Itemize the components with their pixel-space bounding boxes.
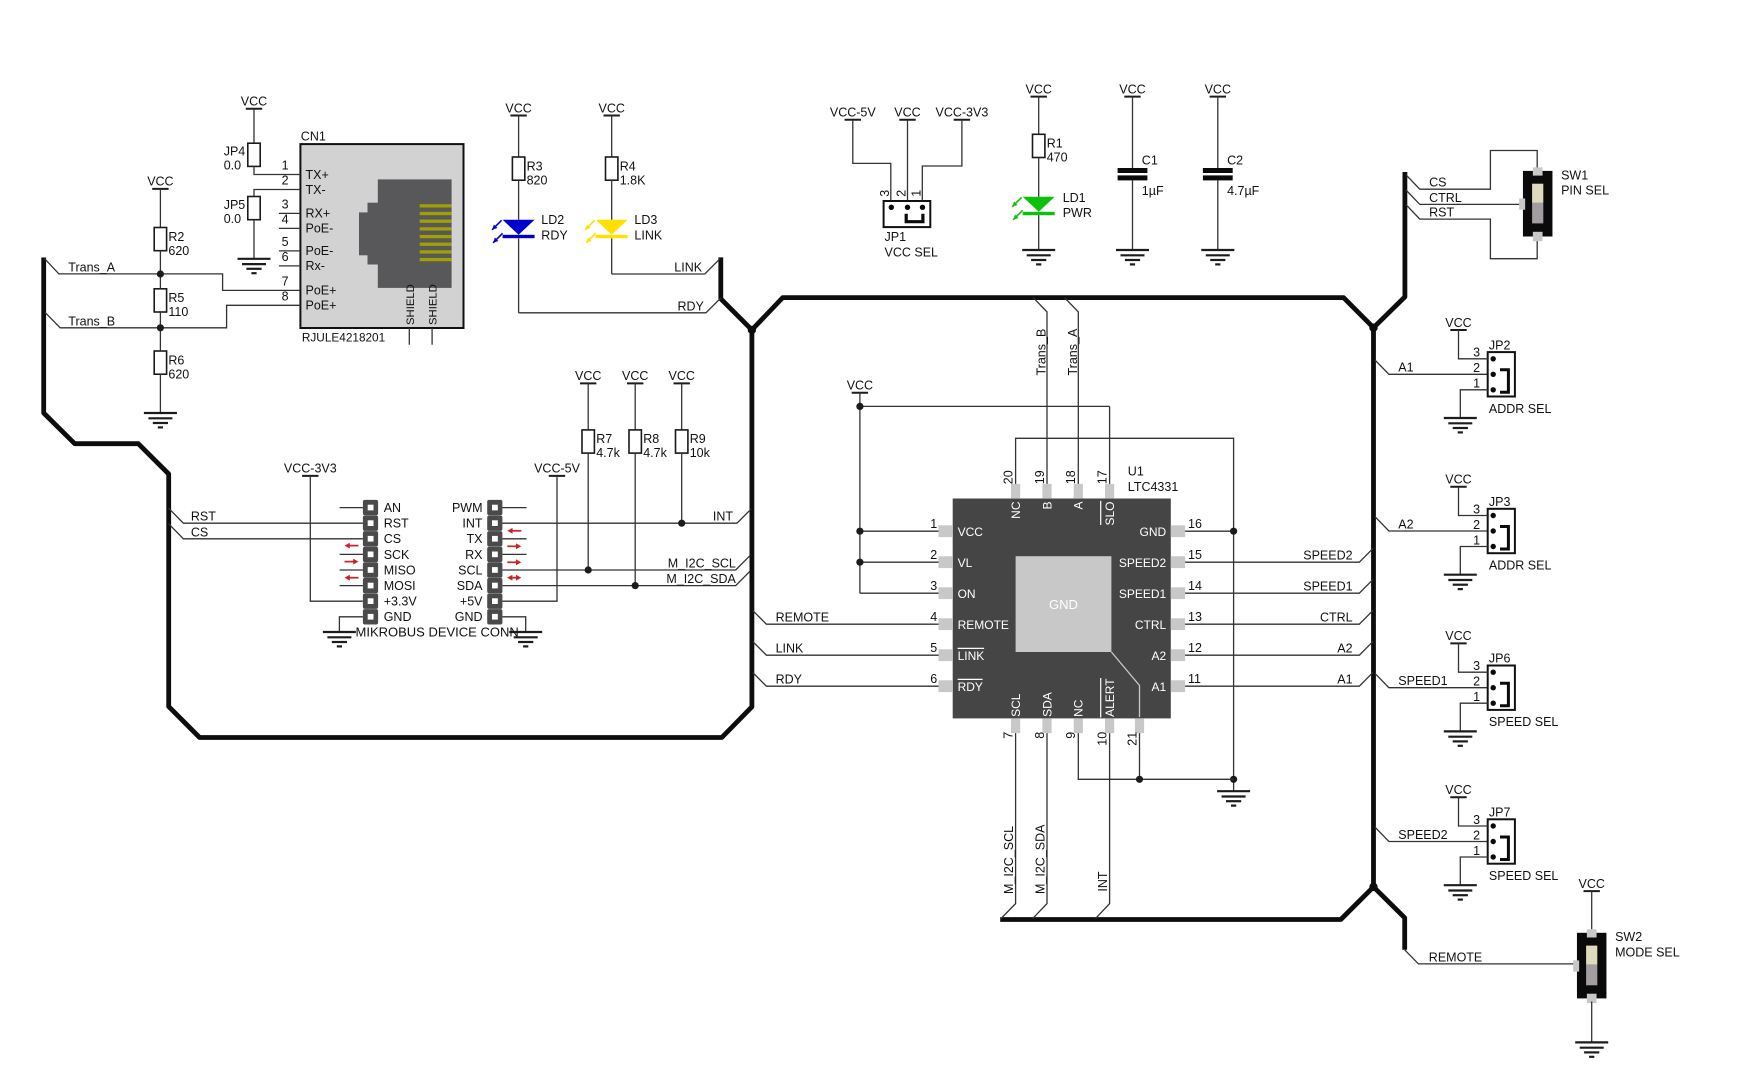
svg-text:Trans_B: Trans_B: [68, 314, 115, 328]
svg-text:GND: GND: [1049, 597, 1078, 612]
svg-text:SCL: SCL: [458, 563, 482, 577]
svg-text:LINK: LINK: [776, 642, 804, 656]
svg-text:LINK: LINK: [674, 261, 702, 275]
svg-text:GND: GND: [384, 610, 412, 624]
svg-text:1: 1: [1473, 844, 1480, 858]
svg-text:SLO: SLO: [1103, 502, 1117, 526]
svg-text:LTC4331: LTC4331: [1128, 480, 1179, 494]
svg-text:0.0: 0.0: [224, 212, 241, 226]
svg-text:INT: INT: [462, 517, 483, 531]
svg-text:SW1: SW1: [1561, 168, 1588, 182]
svg-text:10k: 10k: [690, 446, 711, 460]
svg-text:1µF: 1µF: [1142, 184, 1164, 198]
svg-text:A1: A1: [1337, 673, 1352, 687]
svg-text:3: 3: [1473, 813, 1480, 827]
svg-text:VCC: VCC: [622, 369, 648, 383]
svg-text:110: 110: [168, 305, 188, 319]
svg-text:VCC SEL: VCC SEL: [885, 246, 939, 260]
svg-text:VCC: VCC: [1205, 82, 1231, 96]
svg-text:VCC: VCC: [1445, 316, 1471, 330]
svg-text:CTRL: CTRL: [1320, 611, 1353, 625]
svg-text:REMOTE: REMOTE: [1429, 950, 1482, 964]
svg-text:ALERT: ALERT: [1103, 678, 1117, 717]
svg-text:A1: A1: [1152, 680, 1167, 694]
svg-text:JP3: JP3: [1489, 495, 1511, 509]
svg-text:VCC: VCC: [147, 175, 173, 189]
svg-text:LINK: LINK: [634, 228, 662, 242]
svg-text:SPEED1: SPEED1: [1119, 587, 1167, 601]
svg-text:JP6: JP6: [1489, 652, 1511, 666]
svg-text:R3: R3: [527, 159, 543, 173]
svg-text:VCC: VCC: [575, 369, 601, 383]
svg-text:PoE+: PoE+: [306, 284, 337, 298]
svg-text:VCC: VCC: [1445, 783, 1471, 797]
svg-text:11: 11: [1188, 672, 1201, 686]
svg-text:GND: GND: [455, 610, 483, 624]
svg-text:CTRL: CTRL: [1135, 618, 1167, 632]
svg-text:8: 8: [1033, 732, 1047, 739]
svg-text:VCC: VCC: [668, 369, 694, 383]
svg-text:TX-: TX-: [306, 183, 326, 197]
svg-text:LINK: LINK: [958, 649, 985, 663]
svg-text:RJULE4218201: RJULE4218201: [302, 331, 385, 345]
svg-text:3: 3: [930, 579, 937, 593]
svg-text:REMOTE: REMOTE: [958, 618, 1009, 632]
svg-text:4: 4: [930, 610, 937, 624]
svg-text:3: 3: [878, 190, 892, 197]
svg-text:R8: R8: [643, 432, 659, 446]
svg-text:M_I2C_SDA: M_I2C_SDA: [666, 572, 736, 586]
svg-text:1: 1: [930, 517, 937, 531]
svg-text:19: 19: [1033, 470, 1047, 484]
svg-text:R1: R1: [1047, 137, 1063, 151]
svg-text:CS: CS: [1429, 176, 1446, 190]
svg-text:JP2: JP2: [1489, 338, 1511, 352]
svg-text:4: 4: [282, 212, 289, 226]
svg-text:16: 16: [1188, 517, 1202, 531]
svg-text:INT: INT: [1096, 871, 1110, 892]
svg-text:U1: U1: [1128, 465, 1144, 479]
svg-text:NC: NC: [1072, 699, 1086, 717]
svg-text:RST: RST: [384, 517, 409, 531]
svg-text:SHIELD: SHIELD: [405, 284, 417, 325]
svg-text:4.7k: 4.7k: [643, 446, 667, 460]
svg-text:+3.3V: +3.3V: [384, 595, 418, 609]
svg-text:820: 820: [527, 173, 548, 187]
svg-text:VCC-5V: VCC-5V: [830, 106, 877, 120]
svg-text:JP4: JP4: [224, 145, 246, 159]
svg-text:3: 3: [1473, 659, 1480, 673]
svg-text:ADDR SEL: ADDR SEL: [1489, 559, 1552, 573]
svg-text:ADDR SEL: ADDR SEL: [1489, 402, 1552, 416]
svg-text:CS: CS: [384, 532, 401, 546]
svg-text:VCC: VCC: [958, 525, 984, 539]
svg-text:SPEED SEL: SPEED SEL: [1489, 715, 1559, 729]
svg-text:14: 14: [1188, 579, 1202, 593]
svg-text:2: 2: [1473, 675, 1480, 689]
svg-text:NC: NC: [1009, 501, 1023, 519]
svg-text:A: A: [1072, 502, 1086, 510]
svg-text:4.7k: 4.7k: [596, 446, 620, 460]
svg-text:CTRL: CTRL: [1429, 191, 1462, 205]
svg-text:2: 2: [1473, 361, 1480, 375]
svg-text:PWR: PWR: [1063, 206, 1092, 220]
svg-text:SDA: SDA: [457, 579, 483, 593]
svg-text:620: 620: [168, 367, 189, 381]
svg-text:SPEED2: SPEED2: [1119, 556, 1167, 570]
svg-text:1: 1: [1473, 690, 1480, 704]
svg-text:5: 5: [282, 235, 289, 249]
svg-text:1: 1: [1473, 377, 1480, 391]
svg-text:A2: A2: [1337, 642, 1352, 656]
svg-text:SCK: SCK: [384, 548, 410, 562]
svg-text:INT: INT: [713, 510, 734, 524]
svg-text:RDY: RDY: [776, 673, 803, 687]
svg-text:RX: RX: [465, 548, 483, 562]
svg-text:PWM: PWM: [452, 501, 483, 515]
svg-text:R6: R6: [168, 353, 184, 367]
svg-text:RDY: RDY: [678, 299, 705, 313]
svg-text:ON: ON: [958, 587, 976, 601]
svg-text:6: 6: [282, 250, 289, 264]
svg-text:VCC: VCC: [1445, 473, 1471, 487]
svg-text:17: 17: [1096, 470, 1110, 484]
svg-text:1: 1: [282, 159, 289, 173]
svg-text:VCC: VCC: [1025, 82, 1051, 96]
svg-text:MIKROBUS DEVICE CONN: MIKROBUS DEVICE CONN: [356, 625, 519, 640]
svg-text:SCL: SCL: [1009, 693, 1023, 717]
svg-text:2: 2: [282, 174, 289, 188]
svg-text:LD2: LD2: [541, 213, 564, 227]
svg-text:R2: R2: [168, 230, 184, 244]
svg-text:C1: C1: [1142, 153, 1158, 167]
svg-text:4.7µF: 4.7µF: [1227, 184, 1260, 198]
svg-text:2: 2: [930, 548, 937, 562]
svg-text:VCC: VCC: [847, 379, 873, 393]
svg-text:A1: A1: [1398, 361, 1413, 375]
svg-text:6: 6: [930, 672, 937, 686]
svg-text:3: 3: [1473, 502, 1480, 516]
svg-text:Trans_B: Trans_B: [1034, 329, 1048, 376]
svg-text:SW2: SW2: [1615, 930, 1642, 944]
svg-text:21: 21: [1125, 732, 1139, 746]
svg-text:VCC-3V3: VCC-3V3: [284, 462, 337, 476]
svg-text:RST: RST: [191, 510, 216, 524]
svg-text:620: 620: [168, 244, 189, 258]
svg-text:VCC: VCC: [241, 95, 267, 109]
svg-text:15: 15: [1188, 548, 1202, 562]
svg-text:TX: TX: [467, 532, 484, 546]
svg-text:VCC: VCC: [1119, 82, 1145, 96]
svg-text:1.8K: 1.8K: [620, 173, 646, 187]
svg-text:AN: AN: [384, 501, 401, 515]
svg-text:JP1: JP1: [885, 230, 907, 244]
svg-text:R7: R7: [596, 432, 612, 446]
svg-text:C2: C2: [1227, 153, 1243, 167]
svg-text:JP5: JP5: [224, 198, 246, 212]
svg-text:A2: A2: [1152, 649, 1167, 663]
svg-text:7: 7: [282, 274, 289, 288]
svg-text:18: 18: [1064, 470, 1078, 484]
svg-text:5: 5: [930, 641, 937, 655]
svg-text:CS: CS: [191, 525, 208, 539]
svg-text:3: 3: [282, 197, 289, 211]
svg-text:Rx-: Rx-: [306, 259, 325, 273]
svg-text:SDA: SDA: [1040, 692, 1054, 717]
svg-text:PoE-: PoE-: [306, 244, 334, 258]
svg-text:+5V: +5V: [460, 595, 483, 609]
svg-text:JP7: JP7: [1489, 806, 1511, 820]
svg-text:M_I2C_SCL: M_I2C_SCL: [668, 556, 736, 570]
svg-text:VCC-5V: VCC-5V: [534, 462, 581, 476]
svg-text:VCC: VCC: [1578, 877, 1604, 891]
svg-text:MODE SEL: MODE SEL: [1615, 946, 1680, 960]
svg-text:20: 20: [1002, 470, 1016, 484]
svg-text:VCC-3V3: VCC-3V3: [936, 106, 989, 120]
svg-text:13: 13: [1188, 610, 1202, 624]
svg-text:VCC: VCC: [1445, 629, 1471, 643]
svg-text:1: 1: [1473, 533, 1480, 547]
svg-text:VCC: VCC: [894, 106, 920, 120]
svg-text:SPEED1: SPEED1: [1398, 674, 1447, 688]
svg-text:VCC: VCC: [598, 101, 624, 115]
svg-text:9: 9: [1064, 732, 1078, 739]
svg-text:SHIELD: SHIELD: [428, 284, 440, 325]
svg-text:VL: VL: [958, 556, 973, 570]
svg-text:B: B: [1040, 502, 1054, 510]
svg-text:SPEED2: SPEED2: [1303, 549, 1352, 563]
svg-text:2: 2: [1473, 828, 1480, 842]
svg-text:MOSI: MOSI: [384, 579, 416, 593]
svg-text:12: 12: [1188, 641, 1202, 655]
svg-text:7: 7: [1002, 732, 1016, 739]
svg-text:GND: GND: [1140, 525, 1167, 539]
svg-text:CN1: CN1: [301, 130, 326, 144]
svg-text:10: 10: [1096, 732, 1110, 746]
svg-text:LD1: LD1: [1063, 191, 1086, 205]
svg-text:2: 2: [894, 190, 908, 197]
svg-text:A2: A2: [1398, 517, 1413, 531]
svg-text:RX+: RX+: [306, 207, 331, 221]
svg-text:8: 8: [282, 289, 289, 303]
svg-text:SPEED2: SPEED2: [1398, 828, 1447, 842]
svg-text:1: 1: [909, 190, 923, 197]
svg-text:M_I2C_SCL: M_I2C_SCL: [1002, 826, 1016, 894]
svg-text:3: 3: [1473, 346, 1480, 360]
svg-text:RDY: RDY: [958, 680, 983, 694]
svg-text:R9: R9: [690, 432, 706, 446]
svg-text:RDY: RDY: [541, 228, 568, 242]
svg-text:LD3: LD3: [634, 213, 657, 227]
svg-text:SPEED SEL: SPEED SEL: [1489, 869, 1559, 883]
svg-text:2: 2: [1473, 518, 1480, 532]
svg-text:Trans_A: Trans_A: [1066, 328, 1080, 375]
svg-text:0.0: 0.0: [224, 159, 241, 173]
svg-text:R5: R5: [168, 291, 184, 305]
svg-text:MISO: MISO: [384, 563, 416, 577]
svg-text:M_I2C_SDA: M_I2C_SDA: [1033, 824, 1047, 894]
svg-text:R4: R4: [620, 159, 636, 173]
svg-text:PIN SEL: PIN SEL: [1561, 184, 1609, 198]
svg-text:TX+: TX+: [306, 168, 329, 182]
svg-text:PoE+: PoE+: [306, 299, 337, 313]
svg-text:RST: RST: [1429, 206, 1454, 220]
svg-text:Trans_A: Trans_A: [68, 260, 115, 274]
svg-text:470: 470: [1047, 151, 1068, 165]
svg-text:VCC: VCC: [505, 101, 531, 115]
svg-text:REMOTE: REMOTE: [776, 611, 829, 625]
svg-text:SPEED1: SPEED1: [1303, 580, 1352, 594]
svg-text:PoE-: PoE-: [306, 222, 334, 236]
